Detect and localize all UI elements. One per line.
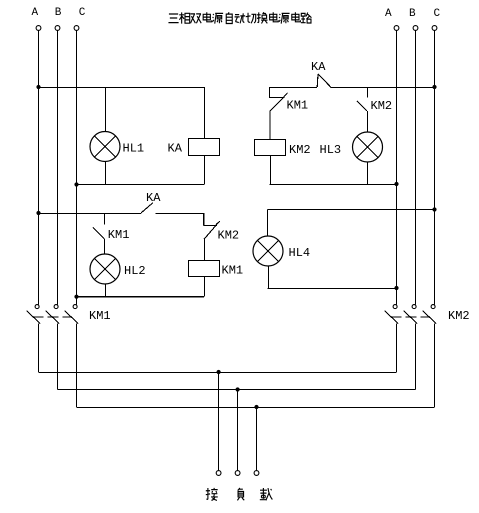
terminal load B: [235, 471, 240, 476]
contact KM1 (NO, block3): [93, 213, 105, 254]
wire block2 bottom rail: [269, 184, 396, 186]
svg-text:A: A: [385, 8, 392, 20]
contact KM1 switch pole A fixed: [35, 305, 39, 309]
wire block1 top rail: [39, 87, 205, 89]
wire HL2 bottom lead: [105, 284, 107, 297]
svg-text:HL1: HL1: [123, 142, 145, 156]
title text 三相双电源自动切换电源电路: [168, 12, 311, 23]
mechanical link KM2 switch: [391, 316, 430, 318]
terminal C right: [432, 26, 437, 31]
wire phase C left feeder: [76, 30, 78, 304]
wire HL3 bottom lead: [367, 162, 369, 184]
junction block3 top on A: [36, 211, 40, 215]
contact KA (NO, block2): [317, 74, 331, 87]
svg-text:KM1: KM1: [222, 264, 244, 278]
contact KM2 switch pole C fixed: [431, 305, 435, 309]
svg-text:KA: KA: [311, 60, 326, 74]
contact KM2 (NO, block3): [204, 213, 220, 260]
junction bus C tap: [254, 405, 258, 409]
lamp HL1: [90, 132, 120, 162]
wire block1 bottom rail: [77, 184, 205, 186]
svg-text:HL3: HL3: [320, 143, 342, 157]
svg-text:KM1: KM1: [89, 309, 111, 323]
wire bus C right riser: [434, 324, 436, 407]
contact KM2 switch pole B blade: [404, 311, 418, 324]
wire load phase A drop: [218, 372, 220, 470]
svg-text:KA: KA: [146, 191, 161, 205]
wire phase B left feeder: [57, 30, 59, 304]
wire KA coil top lead: [204, 87, 206, 138]
wire bus B: [58, 389, 416, 391]
terminal A right: [394, 26, 399, 31]
svg-text:KM2: KM2: [289, 143, 311, 157]
svg-text:KM2: KM2: [218, 229, 240, 243]
svg-text:KM1: KM1: [108, 228, 130, 242]
wire phase C right feeder: [434, 30, 436, 304]
svg-text:B: B: [55, 7, 62, 19]
contact KM2 switch pole A blade: [385, 311, 399, 324]
wire bus B right riser: [415, 324, 417, 390]
wire HL1 bottom lead: [105, 162, 107, 185]
wire block4 top rail: [268, 209, 435, 211]
wire bus A left drop: [38, 324, 40, 372]
svg-text:KM1: KM1: [287, 99, 309, 113]
terminal B right: [413, 26, 418, 31]
svg-text:C: C: [434, 8, 441, 20]
lamp HL2: [90, 254, 120, 284]
wire bus C left drop: [76, 324, 78, 407]
junction block3 bottom on C: [74, 295, 78, 299]
svg-text:B: B: [409, 8, 416, 20]
svg-text:HL4: HL4: [289, 246, 311, 260]
terminal A left: [36, 26, 41, 31]
terminal load C: [254, 471, 259, 476]
label 接 (connect): [206, 488, 218, 501]
mechanical link KM1 switch: [33, 316, 72, 318]
junction bus B tap: [236, 387, 240, 391]
label 载 (load char 2): [260, 488, 273, 500]
contact KM2 (NO, block2): [357, 87, 368, 132]
wire bus A right riser: [396, 324, 398, 372]
wire block2 top rail left segment: [269, 87, 317, 89]
junction block1 bottom on C: [74, 182, 78, 186]
wire phase A right feeder: [396, 30, 398, 304]
wire KM2 coil bottom lead: [270, 156, 272, 184]
lamp HL3: [353, 132, 383, 162]
coil KA: [189, 139, 220, 156]
svg-text:KM2: KM2: [448, 309, 470, 323]
wire load phase B drop: [237, 390, 239, 471]
svg-text:KM2: KM2: [371, 99, 393, 113]
contact KM1 switch pole C fixed: [73, 305, 77, 309]
terminal load A: [216, 471, 221, 476]
contact KM2 switch pole C blade: [423, 311, 437, 324]
contact KM1 switch pole C blade: [65, 311, 79, 324]
wire block3 top rail left segment: [39, 213, 142, 215]
coil KM1: [189, 261, 220, 277]
contact KM1 (NO, block2): [269, 87, 288, 139]
wire block4 bottom rail: [268, 288, 397, 290]
svg-text:A: A: [32, 7, 39, 19]
contact KM1 switch pole B blade: [46, 311, 60, 324]
svg-text:C: C: [79, 7, 86, 19]
terminal B left: [55, 26, 60, 31]
contact KM1 switch pole A blade: [27, 311, 41, 324]
svg-text:HL2: HL2: [124, 264, 146, 278]
wire KA coil bottom lead: [204, 156, 206, 185]
wire phase B right feeder: [415, 30, 417, 304]
lamp HL4: [253, 236, 283, 266]
wire block3 bottom rail: [77, 296, 205, 298]
coil KM2: [255, 140, 286, 156]
terminal C left: [74, 26, 79, 31]
junction block4 top on right C: [432, 207, 436, 211]
wire bus C: [77, 407, 435, 409]
wire load phase C drop: [256, 407, 258, 470]
junction bus A tap: [217, 370, 221, 374]
wire block2 top rail right segment: [331, 87, 435, 89]
junction block2 bottom on right A: [394, 182, 398, 186]
junction block1 top on A: [36, 85, 40, 89]
wire HL4 bottom lead: [268, 266, 270, 288]
wire HL1 top lead: [105, 87, 107, 132]
wire block3 top rail right segment: [156, 213, 204, 215]
contact KM2 switch pole B fixed: [412, 305, 416, 309]
svg-text:KA: KA: [168, 142, 183, 156]
wire HL4 top lead: [267, 210, 269, 237]
wire KM1 coil bottom lead: [204, 277, 206, 297]
wire bus A: [39, 372, 397, 374]
label 负 (load char 1): [237, 488, 244, 501]
wire bus B left drop: [57, 324, 59, 390]
junction block2 top on right C: [432, 85, 436, 89]
junction block4 bottom on right A: [394, 286, 398, 290]
contact KA (NO, block3): [141, 203, 153, 213]
contact KM1 switch pole B fixed: [54, 305, 58, 309]
contact KM2 switch pole A fixed: [393, 305, 397, 309]
wire phase A left feeder: [38, 30, 40, 304]
